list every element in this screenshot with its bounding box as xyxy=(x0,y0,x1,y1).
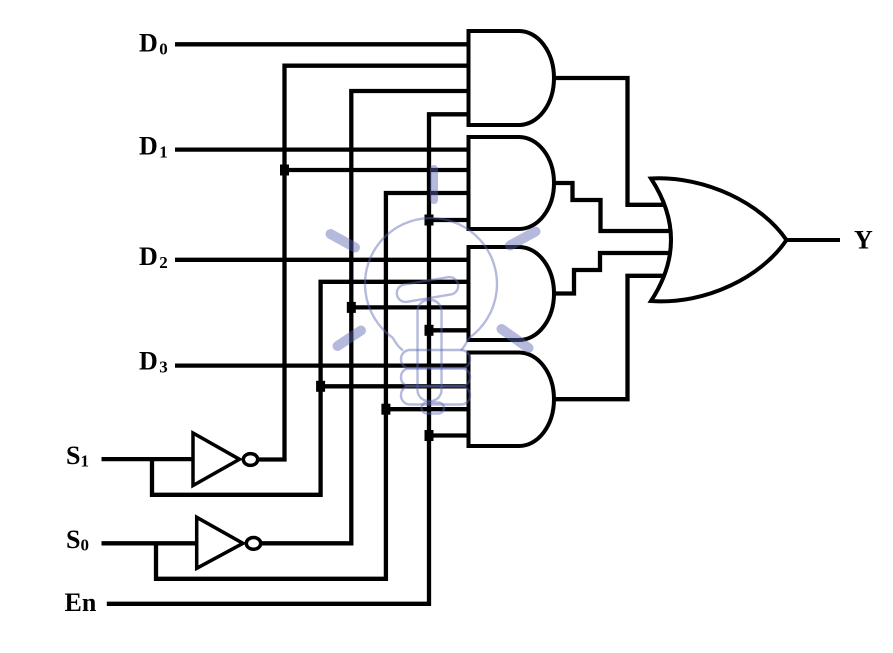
svg-text:Y: Y xyxy=(854,226,873,255)
svg-text:En: En xyxy=(65,588,97,617)
